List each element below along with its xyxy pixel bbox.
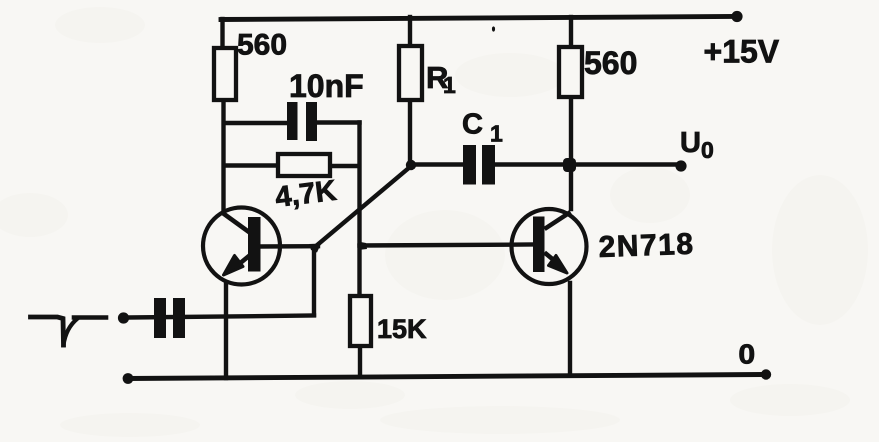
svg-text:10nF: 10nF	[289, 68, 364, 104]
svg-text:0: 0	[738, 339, 755, 370]
svg-text:0: 0	[701, 137, 714, 163]
svg-text:U: U	[680, 127, 701, 159]
svg-text:2N718: 2N718	[598, 228, 695, 264]
svg-text:C: C	[462, 109, 483, 141]
svg-text:1: 1	[490, 121, 503, 147]
svg-text:15K: 15K	[377, 314, 427, 344]
svg-text:560: 560	[584, 45, 637, 81]
svg-text:560: 560	[237, 29, 287, 62]
svg-text:+15V: +15V	[704, 34, 780, 70]
svg-text:1: 1	[443, 72, 456, 98]
